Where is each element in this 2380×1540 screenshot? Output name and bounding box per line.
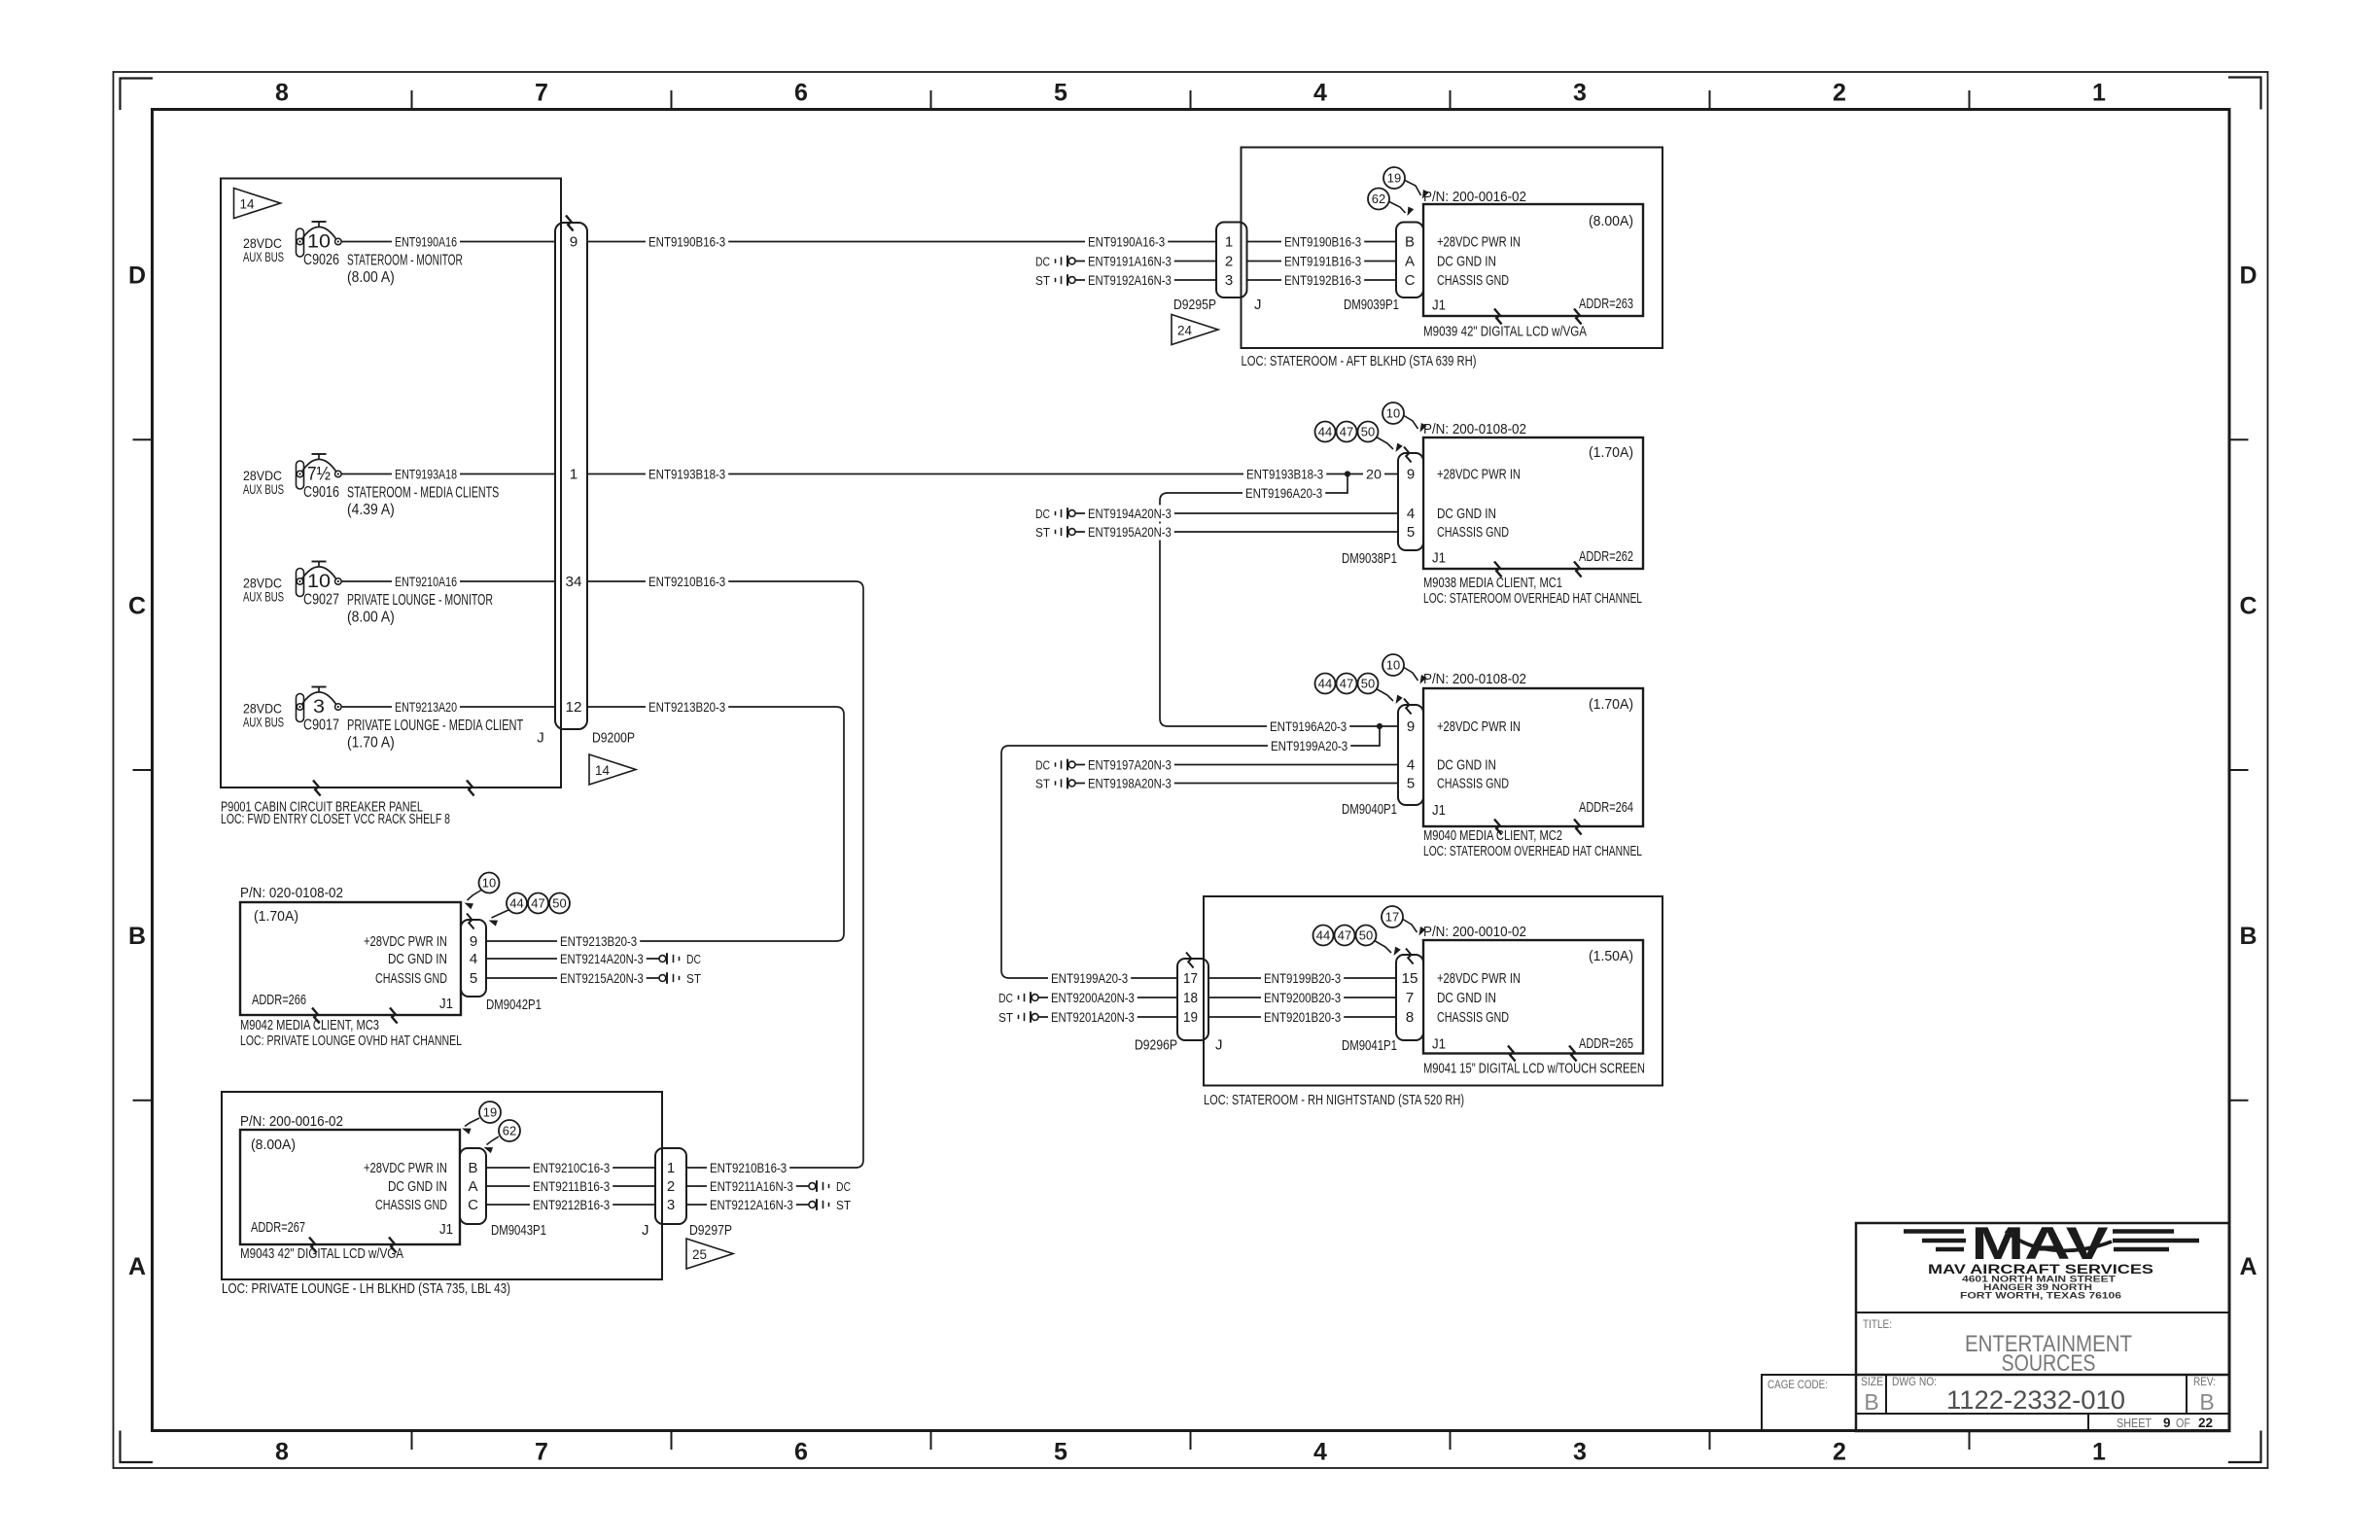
svg-text:1: 1 — [570, 467, 578, 483]
svg-text:7½: 7½ — [307, 465, 331, 485]
svg-text:8: 8 — [1406, 1009, 1415, 1026]
svg-text:AUX BUS: AUX BUS — [243, 715, 284, 730]
svg-text:9: 9 — [2163, 1416, 2171, 1430]
svg-text:19: 19 — [1387, 171, 1401, 186]
svg-text:5: 5 — [470, 970, 477, 987]
svg-text:D: D — [128, 262, 146, 290]
svg-text:ENT9201B20-3: ENT9201B20-3 — [1264, 1009, 1341, 1025]
svg-text:+28VDC PWR IN: +28VDC PWR IN — [1437, 467, 1521, 483]
svg-text:B: B — [128, 923, 146, 950]
svg-text:10: 10 — [1386, 406, 1400, 421]
svg-text:REV:: REV: — [2193, 1377, 2216, 1388]
svg-text:J: J — [537, 730, 544, 747]
svg-text:CAGE CODE:: CAGE CODE: — [1767, 1380, 1828, 1391]
svg-text:CHASSIS GND: CHASSIS GND — [375, 1197, 447, 1213]
svg-text:B: B — [1864, 1389, 1878, 1415]
svg-text:ENT9197A20N-3: ENT9197A20N-3 — [1088, 756, 1172, 772]
svg-text:3: 3 — [1225, 272, 1233, 289]
svg-text:LOC: STATEROOM - RH NIGHTSTAND: LOC: STATEROOM - RH NIGHTSTAND (STA 520 … — [1204, 1092, 1464, 1108]
svg-text:14: 14 — [240, 196, 255, 212]
svg-text:1122-2332-010: 1122-2332-010 — [1946, 1385, 2125, 1415]
svg-text:1: 1 — [2092, 1439, 2106, 1466]
svg-text:ADDR=262: ADDR=262 — [1579, 548, 1633, 565]
svg-text:ENT9193B18-3: ENT9193B18-3 — [1246, 466, 1323, 481]
svg-text:17: 17 — [1385, 910, 1399, 925]
svg-text:ENT9213B20-3: ENT9213B20-3 — [648, 699, 725, 715]
svg-text:(8.00A): (8.00A) — [251, 1137, 296, 1153]
svg-text:62: 62 — [1372, 192, 1385, 206]
svg-text:2: 2 — [1833, 80, 1846, 107]
svg-text:44: 44 — [1318, 425, 1332, 439]
svg-text:C9026: C9026 — [303, 252, 339, 268]
svg-text:18: 18 — [1183, 990, 1198, 1006]
svg-text:P/N: 200-0016-02: P/N: 200-0016-02 — [240, 1113, 343, 1130]
svg-text:2: 2 — [1225, 254, 1233, 270]
svg-text:34: 34 — [566, 574, 582, 590]
svg-text:A: A — [128, 1253, 146, 1280]
svg-text:DC: DC — [998, 991, 1013, 1005]
svg-text:SIZE: SIZE — [1861, 1377, 1883, 1388]
svg-text:C9017: C9017 — [303, 717, 339, 734]
svg-text:14: 14 — [595, 762, 610, 778]
svg-text:OF: OF — [2176, 1417, 2190, 1430]
svg-text:25: 25 — [692, 1246, 707, 1262]
svg-text:ENT9211A16N-3: ENT9211A16N-3 — [710, 1178, 793, 1194]
svg-text:D9296P: D9296P — [1135, 1038, 1177, 1054]
svg-text:1: 1 — [667, 1160, 675, 1176]
svg-text:ENT9190B16-3: ENT9190B16-3 — [648, 233, 725, 249]
svg-text:ENT9211B16-3: ENT9211B16-3 — [533, 1178, 610, 1194]
svg-text:5: 5 — [1054, 80, 1067, 107]
svg-text:J: J — [642, 1222, 649, 1239]
svg-text:10: 10 — [482, 876, 496, 891]
svg-text:C: C — [128, 592, 146, 619]
svg-text:ADDR=266: ADDR=266 — [252, 992, 306, 1008]
svg-text:C: C — [2239, 592, 2257, 619]
svg-text:M9039 42" DIGITAL LCD w/VGA: M9039 42" DIGITAL LCD w/VGA — [1423, 324, 1587, 340]
svg-text:B: B — [2199, 1389, 2214, 1415]
svg-text:47: 47 — [1338, 928, 1351, 943]
svg-text:SHEET: SHEET — [2117, 1417, 2152, 1430]
svg-text:ENT9200A20N-3: ENT9200A20N-3 — [1051, 990, 1135, 1005]
svg-text:+28VDC PWR IN: +28VDC PWR IN — [364, 1160, 447, 1176]
svg-text:8: 8 — [275, 1439, 289, 1466]
svg-text:ST: ST — [1035, 525, 1050, 540]
svg-text:SOURCES: SOURCES — [2002, 1350, 2096, 1377]
svg-text:M9038 MEDIA CLIENT, MC1: M9038 MEDIA CLIENT, MC1 — [1423, 575, 1562, 591]
svg-text:M9042 MEDIA CLIENT, MC3: M9042 MEDIA CLIENT, MC3 — [240, 1017, 379, 1033]
svg-text:J1: J1 — [1432, 297, 1446, 314]
svg-text:DC: DC — [836, 1179, 851, 1194]
svg-text:C9016: C9016 — [303, 484, 339, 501]
svg-text:ENT9190A16-3: ENT9190A16-3 — [1088, 233, 1165, 249]
svg-text:ENT9215A20N-3: ENT9215A20N-3 — [560, 970, 644, 986]
svg-text:5: 5 — [1407, 524, 1415, 541]
svg-text:AUX BUS: AUX BUS — [243, 481, 284, 497]
svg-text:47: 47 — [1340, 677, 1353, 691]
svg-text:DC GND IN: DC GND IN — [1437, 254, 1496, 270]
svg-text:6: 6 — [794, 80, 808, 107]
svg-text:+28VDC PWR IN: +28VDC PWR IN — [1437, 970, 1521, 987]
svg-text:ENT9213B20-3: ENT9213B20-3 — [560, 933, 637, 949]
svg-text:CHASSIS GND: CHASSIS GND — [1437, 1009, 1509, 1026]
svg-text:M9041 15" DIGITAL LCD w/TOUCH: M9041 15" DIGITAL LCD w/TOUCH SCREEN — [1423, 1061, 1645, 1077]
svg-text:ENT9199A20-3: ENT9199A20-3 — [1271, 738, 1347, 753]
svg-text:DM9039P1: DM9039P1 — [1344, 297, 1399, 313]
svg-text:DC: DC — [1035, 254, 1050, 268]
svg-text:CHASSIS GND: CHASSIS GND — [1437, 272, 1509, 289]
svg-text:22: 22 — [2198, 1416, 2213, 1430]
svg-text:PRIVATE LOUNGE - MEDIA CLIENT: PRIVATE LOUNGE - MEDIA CLIENT — [347, 717, 523, 734]
svg-text:ENT9212B16-3: ENT9212B16-3 — [533, 1197, 610, 1212]
svg-text:19: 19 — [1183, 1009, 1198, 1026]
svg-text:(1.50A): (1.50A) — [1589, 948, 1633, 964]
svg-text:P/N: 200-0016-02: P/N: 200-0016-02 — [1423, 189, 1526, 205]
svg-text:10: 10 — [307, 232, 331, 253]
svg-text:19: 19 — [483, 1105, 497, 1120]
svg-text:B: B — [2239, 923, 2257, 950]
svg-text:LOC: PRIVATE LOUNGE - LH BLKHD: LOC: PRIVATE LOUNGE - LH BLKHD (STA 735,… — [222, 1280, 510, 1297]
svg-text:DM9043P1: DM9043P1 — [491, 1223, 546, 1239]
svg-text:24: 24 — [1177, 323, 1192, 338]
svg-text:4: 4 — [1313, 1439, 1327, 1466]
svg-text:1: 1 — [1225, 234, 1233, 251]
svg-text:B: B — [468, 1160, 477, 1176]
svg-text:J1: J1 — [439, 1221, 453, 1238]
svg-text:ADDR=263: ADDR=263 — [1579, 296, 1633, 312]
svg-text:ENT9190A16: ENT9190A16 — [395, 233, 457, 249]
svg-text:A: A — [1405, 254, 1415, 270]
svg-text:ENT9213A20: ENT9213A20 — [395, 699, 457, 715]
svg-text:LOC: STATEROOM OVERHEAD HAT CH: LOC: STATEROOM OVERHEAD HAT CHANNEL — [1423, 590, 1642, 607]
svg-text:ST: ST — [836, 1198, 851, 1212]
svg-text:LOC: STATEROOM - AFT BLKHD (ST: LOC: STATEROOM - AFT BLKHD (STA 639 RH) — [1242, 353, 1477, 369]
svg-text:LOC: PRIVATE LOUNGE OVHD HAT C: LOC: PRIVATE LOUNGE OVHD HAT CHANNEL — [240, 1032, 462, 1049]
svg-text:ENT9210C16-3: ENT9210C16-3 — [533, 1160, 610, 1175]
svg-text:DC GND IN: DC GND IN — [1437, 990, 1496, 1006]
svg-text:(1.70A): (1.70A) — [1589, 444, 1633, 461]
svg-text:2: 2 — [667, 1178, 675, 1195]
svg-text:50: 50 — [552, 896, 566, 911]
svg-text:C: C — [468, 1197, 478, 1213]
svg-text:2: 2 — [1833, 1439, 1846, 1466]
svg-text:ENT9192B16-3: ENT9192B16-3 — [1284, 272, 1361, 288]
svg-text:A: A — [2239, 1253, 2257, 1280]
svg-text:6: 6 — [794, 1439, 808, 1466]
svg-text:7: 7 — [535, 80, 548, 107]
svg-text:PRIVATE LOUNGE - MONITOR: PRIVATE LOUNGE - MONITOR — [347, 592, 493, 609]
svg-text:9: 9 — [470, 933, 477, 950]
svg-text:50: 50 — [1361, 425, 1375, 439]
svg-text:4: 4 — [470, 951, 477, 967]
svg-text:AUX BUS: AUX BUS — [243, 249, 284, 264]
svg-text:ST: ST — [998, 1010, 1013, 1025]
svg-text:D9295P: D9295P — [1173, 297, 1216, 313]
svg-text:15: 15 — [1402, 970, 1418, 987]
svg-text:DC GND IN: DC GND IN — [1437, 757, 1496, 774]
svg-text:DC GND IN: DC GND IN — [1437, 506, 1496, 522]
svg-text:D9297P: D9297P — [689, 1223, 732, 1239]
svg-text:ENT9210B16-3: ENT9210B16-3 — [710, 1160, 787, 1175]
svg-text:3: 3 — [1573, 80, 1587, 107]
svg-text:C9027: C9027 — [303, 592, 339, 609]
svg-text:62: 62 — [503, 1124, 516, 1138]
svg-text:(4.39 A): (4.39 A) — [347, 502, 395, 518]
svg-text:M9043 42" DIGITAL LCD w/VGA: M9043 42" DIGITAL LCD w/VGA — [240, 1245, 403, 1262]
svg-text:(8.00 A): (8.00 A) — [347, 269, 395, 286]
svg-text:+28VDC PWR IN: +28VDC PWR IN — [1437, 234, 1521, 251]
svg-text:1: 1 — [2092, 80, 2106, 107]
svg-text:ENT9214A20N-3: ENT9214A20N-3 — [560, 951, 644, 966]
svg-text:7: 7 — [535, 1439, 548, 1466]
svg-text:12: 12 — [566, 699, 582, 716]
svg-text:ENT9190B16-3: ENT9190B16-3 — [1284, 233, 1361, 249]
svg-text:ST: ST — [1035, 776, 1050, 790]
svg-text:5: 5 — [1407, 776, 1415, 792]
svg-text:8: 8 — [275, 80, 289, 107]
svg-text:J1: J1 — [1432, 802, 1446, 819]
svg-text:LOC: STATEROOM OVERHEAD HAT CH: LOC: STATEROOM OVERHEAD HAT CHANNEL — [1423, 843, 1642, 859]
svg-text:ENT9210B16-3: ENT9210B16-3 — [648, 574, 725, 589]
svg-text:DC: DC — [686, 952, 701, 966]
svg-text:DC: DC — [1035, 757, 1050, 772]
svg-text:C: C — [1405, 272, 1416, 289]
svg-text:DM9038P1: DM9038P1 — [1342, 551, 1397, 567]
svg-text:(1.70A): (1.70A) — [254, 908, 298, 925]
svg-text:(1.70A): (1.70A) — [1589, 696, 1633, 713]
svg-text:DM9041P1: DM9041P1 — [1342, 1038, 1397, 1054]
svg-text:J1: J1 — [439, 996, 453, 1012]
svg-text:DC: DC — [1035, 507, 1050, 521]
svg-text:9: 9 — [570, 234, 578, 251]
svg-text:STATEROOM - MEDIA CLIENTS: STATEROOM - MEDIA CLIENTS — [347, 485, 499, 502]
svg-text:47: 47 — [1340, 425, 1353, 439]
svg-text:ENT9196A20-3: ENT9196A20-3 — [1245, 485, 1322, 501]
svg-text:ENT9196A20-3: ENT9196A20-3 — [1270, 718, 1347, 734]
svg-text:ENT9193B18-3: ENT9193B18-3 — [648, 466, 725, 481]
svg-text:D: D — [2239, 262, 2257, 290]
svg-text:P/N: 200-0108-02: P/N: 200-0108-02 — [1423, 671, 1526, 687]
svg-text:M9040 MEDIA CLIENT, MC2: M9040 MEDIA CLIENT, MC2 — [1423, 827, 1562, 844]
svg-text:50: 50 — [1361, 677, 1375, 691]
svg-text:B: B — [1405, 234, 1415, 251]
svg-text:DM9040P1: DM9040P1 — [1342, 802, 1397, 818]
svg-text:D9200P: D9200P — [592, 731, 635, 747]
svg-text:ENT9199A20-3: ENT9199A20-3 — [1051, 970, 1128, 986]
svg-text:ENT9195A20N-3: ENT9195A20N-3 — [1088, 524, 1172, 540]
svg-text:P/N: 200-0108-02: P/N: 200-0108-02 — [1423, 421, 1526, 437]
svg-text:ST: ST — [686, 971, 701, 986]
svg-text:DM9042P1: DM9042P1 — [486, 997, 542, 1013]
svg-text:5: 5 — [1054, 1439, 1067, 1466]
svg-text:ENT9192A16N-3: ENT9192A16N-3 — [1088, 272, 1172, 288]
svg-text:ADDR=264: ADDR=264 — [1579, 799, 1633, 816]
svg-text:+28VDC PWR IN: +28VDC PWR IN — [364, 933, 447, 950]
svg-text:50: 50 — [1359, 928, 1373, 943]
svg-text:4: 4 — [1313, 80, 1327, 107]
svg-text:J: J — [1215, 1037, 1223, 1054]
svg-text:J: J — [1254, 297, 1262, 313]
svg-text:ENT9210A16: ENT9210A16 — [395, 574, 457, 589]
svg-text:9: 9 — [1407, 718, 1415, 735]
svg-text:J1: J1 — [1432, 1036, 1446, 1053]
svg-text:20: 20 — [1366, 466, 1382, 481]
svg-text:44: 44 — [509, 896, 523, 911]
svg-text:44: 44 — [1318, 677, 1332, 691]
svg-text:DWG NO:: DWG NO: — [1892, 1377, 1937, 1388]
svg-text:ADDR=267: ADDR=267 — [251, 1219, 305, 1236]
svg-text:J1: J1 — [1432, 550, 1446, 567]
svg-text:(1.70 A): (1.70 A) — [347, 735, 395, 752]
svg-text:ENT9199B20-3: ENT9199B20-3 — [1264, 970, 1341, 986]
svg-text:ST: ST — [1035, 273, 1050, 288]
svg-text:3: 3 — [667, 1197, 675, 1213]
svg-text:ENT9191B16-3: ENT9191B16-3 — [1284, 253, 1361, 268]
svg-text:ENT9198A20N-3: ENT9198A20N-3 — [1088, 775, 1172, 790]
svg-text:4: 4 — [1407, 506, 1415, 522]
svg-text:7: 7 — [1406, 990, 1415, 1006]
svg-text:CHASSIS GND: CHASSIS GND — [375, 970, 447, 987]
svg-text:3: 3 — [1573, 1439, 1587, 1466]
svg-text:4: 4 — [1407, 757, 1415, 774]
svg-text:ENT9191A16N-3: ENT9191A16N-3 — [1088, 253, 1172, 268]
svg-text:(8.00 A): (8.00 A) — [347, 610, 395, 626]
svg-text:ENT9193A18: ENT9193A18 — [395, 466, 457, 481]
svg-text:17: 17 — [1183, 970, 1198, 987]
svg-text:LOC: FWD ENTRY CLOSET VCC RACK: LOC: FWD ENTRY CLOSET VCC RACK SHELF 8 — [221, 812, 450, 827]
svg-text:A: A — [468, 1178, 477, 1195]
svg-text:ENT9201A20N-3: ENT9201A20N-3 — [1051, 1009, 1135, 1025]
svg-text:ENT9200B20-3: ENT9200B20-3 — [1264, 990, 1341, 1005]
svg-text:P/N: 200-0010-02: P/N: 200-0010-02 — [1423, 924, 1526, 940]
svg-text:TITLE:: TITLE: — [1863, 1317, 1892, 1331]
svg-text:47: 47 — [531, 896, 544, 911]
svg-text:P/N: 020-0108-02: P/N: 020-0108-02 — [240, 885, 343, 901]
svg-text:44: 44 — [1316, 928, 1330, 943]
svg-text:+28VDC PWR IN: +28VDC PWR IN — [1437, 718, 1521, 735]
svg-text:ADDR=265: ADDR=265 — [1579, 1035, 1633, 1052]
svg-text:3: 3 — [313, 697, 325, 717]
svg-text:CHASSIS GND: CHASSIS GND — [1437, 524, 1509, 541]
svg-text:10: 10 — [307, 572, 331, 592]
svg-text:CHASSIS GND: CHASSIS GND — [1437, 776, 1509, 792]
svg-text:AUX BUS: AUX BUS — [243, 589, 284, 605]
svg-text:FORT WORTH, TEXAS 76106: FORT WORTH, TEXAS 76106 — [1960, 1291, 2121, 1302]
svg-text:(8.00A): (8.00A) — [1589, 213, 1633, 229]
svg-text:DC GND IN: DC GND IN — [388, 951, 447, 967]
svg-text:ENT9212A16N-3: ENT9212A16N-3 — [710, 1197, 793, 1212]
svg-text:10: 10 — [1386, 658, 1400, 673]
svg-text:DC GND IN: DC GND IN — [388, 1178, 447, 1195]
svg-text:STATEROOM - MONITOR: STATEROOM - MONITOR — [347, 253, 463, 269]
svg-text:9: 9 — [1407, 467, 1415, 483]
svg-text:ENT9194A20N-3: ENT9194A20N-3 — [1088, 506, 1172, 521]
